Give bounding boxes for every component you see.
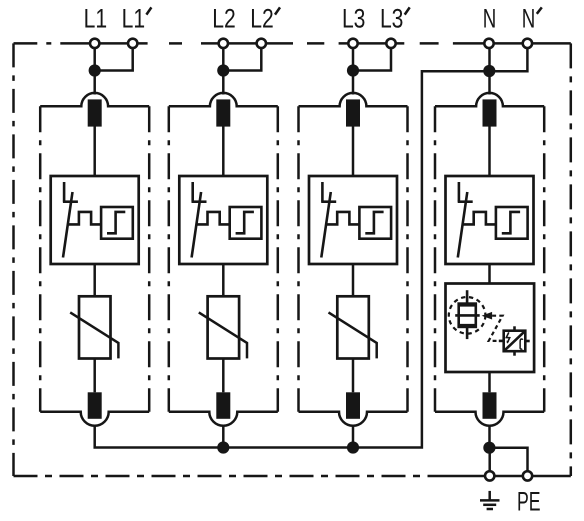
- trigger device left lead: [499, 340, 504, 343]
- wire module L2 bottom to N bus: [222, 425, 225, 447]
- wire contact to disconnector N: [488, 127, 491, 177]
- disconnector switch blade N: [458, 192, 468, 258]
- svg-text:L2: L2: [212, 4, 236, 34]
- wire spark gap box to bottom contact N: [488, 372, 491, 392]
- wire varistor to bottom contact L1: [93, 359, 96, 393]
- surge waveform glyph in trigger box: [520, 339, 523, 349]
- junction dot on N bus below L2: [217, 441, 229, 453]
- wire L2 terminal drop to module plug contact: [222, 48, 225, 95]
- frame left edge (dash-dot): [12, 43, 15, 476]
- protection module L3 enclosure top edge with plug-contact bump: [299, 93, 408, 106]
- ground symbol bar 2: [483, 504, 496, 507]
- terminal L3': [386, 39, 395, 48]
- disconnector switch blade L1: [63, 192, 73, 258]
- status signal step waveform L1: [68, 212, 102, 225]
- terminal earth: [485, 471, 494, 480]
- varistor MOV L2 body: [208, 296, 240, 358]
- disconnector contact tick L1: [63, 200, 78, 203]
- wire contact to disconnector L1: [93, 127, 96, 177]
- trigger device diagonal: [504, 331, 524, 350]
- top plug contact element of module L1: [88, 99, 102, 126]
- indicator step glyph L2: [236, 212, 254, 233]
- gas discharge tube top lead: [466, 290, 469, 304]
- dashed circle around gas discharge tube: [449, 297, 486, 334]
- indicator step glyph L1: [107, 212, 125, 233]
- varistor MOV L3 body: [337, 296, 369, 358]
- bottom plug contact element of module L3: [346, 392, 360, 419]
- wire varistor to bottom contact L3: [352, 359, 355, 393]
- protection module L1 enclosure left side (dash-dot): [39, 106, 42, 411]
- thermal disconnector box L3: [309, 176, 397, 264]
- ground symbol bar 3: [487, 508, 493, 511]
- varistor MOV L1 diagonal stroke: [70, 312, 118, 358]
- junction dot node L3: [347, 64, 359, 76]
- device enclosure frame top line through L1 pair: [64, 42, 148, 45]
- disconnector switch lead L2: [191, 182, 194, 202]
- thermal disconnector box L1: [51, 176, 139, 264]
- trigger device top lead: [513, 326, 516, 330]
- indicator step glyph N: [502, 212, 520, 233]
- indicator window box L2: [230, 207, 262, 239]
- protection module L2 enclosure bottom edge with plug-contact bump: [169, 412, 278, 426]
- protection module L1 enclosure top edge with plug-contact bump: [40, 93, 149, 106]
- protection module L1 enclosure right side (dash-dot): [148, 106, 151, 411]
- junction dot node N: [483, 65, 495, 77]
- status signal step waveform N: [462, 212, 496, 225]
- junction dot node L1: [89, 64, 101, 76]
- top plug contact element of N-PE module: [483, 99, 497, 126]
- terminal N: [484, 39, 493, 48]
- wire L3' terminal drop and link to L3 junction: [353, 48, 391, 71]
- thermal disconnector box N: [446, 176, 534, 264]
- terminal L3: [348, 39, 357, 48]
- wire contact to disconnector L2: [222, 127, 225, 177]
- wire varistor to bottom contact L2: [222, 359, 225, 393]
- junction dot node L2: [217, 64, 229, 76]
- gas discharge tube envelope: [459, 304, 476, 327]
- bottom plug contact element of N-PE module: [483, 392, 497, 419]
- junction dot PE node: [483, 442, 495, 454]
- status signal step waveform L3: [326, 212, 360, 225]
- thermal disconnector box L2: [179, 176, 267, 264]
- frame bottom edge dash-dot part: [14, 475, 445, 478]
- disconnector switch blade L2: [192, 192, 202, 258]
- trigger device right lead: [525, 340, 529, 343]
- wire disconnector to spark gap box N: [488, 264, 491, 284]
- indicator window box N: [496, 207, 528, 239]
- gas discharge tube top electrode bar: [458, 304, 477, 307]
- N bus: L1 module bottom along bottom, up bypass riser, to N junction: [95, 71, 490, 447]
- terminal L1: [90, 39, 99, 48]
- frame top line through L2 pair: [201, 42, 293, 45]
- wire N-PE module bottom to PE junction: [488, 425, 491, 448]
- indicator window box L1: [101, 207, 133, 239]
- disconnector switch blade L3: [321, 192, 331, 258]
- frame top line through L3 pair: [339, 42, 405, 45]
- svg-text:L1: L1: [122, 4, 146, 34]
- disconnector switch lead N: [458, 182, 461, 202]
- disconnector contact tick L3: [321, 200, 336, 203]
- protection module L3 enclosure right side (dash-dot): [406, 106, 409, 411]
- disconnector contact tick L2: [192, 200, 207, 203]
- wire L1' terminal drop and link to L1 junction: [95, 48, 133, 71]
- frame top dash between L2' and L3: [307, 42, 324, 45]
- terminal L2': [257, 39, 266, 48]
- trigger device bottom lead: [513, 351, 516, 356]
- wire N' terminal drop and link to N junction: [490, 48, 528, 72]
- gas discharge tube bottom lead: [466, 327, 469, 340]
- terminal L2: [219, 39, 228, 48]
- spark gap unit box N-PE: [446, 284, 535, 373]
- wire L3 terminal drop to module plug contact: [352, 48, 355, 95]
- svg-text:L3: L3: [342, 4, 366, 34]
- wire module L3 bottom to N bus: [352, 425, 355, 447]
- device enclosure frame top-left dash-dot segment: [14, 42, 65, 45]
- wire disconnector to varistor L3: [352, 264, 355, 296]
- wire PE junction down to earth terminal: [488, 448, 491, 472]
- top plug contact element of module L3: [346, 99, 360, 126]
- wire N terminal drop to module plug contact: [488, 48, 491, 95]
- bottom plug contact element of module L2: [216, 392, 230, 419]
- gas discharge tube bottom electrode bar: [458, 324, 477, 327]
- wire PE junction to PE' terminal: [490, 448, 528, 472]
- N-PE module enclosure bottom edge with plug-contact bump: [435, 412, 544, 426]
- terminal N': [523, 39, 532, 48]
- gas discharge tube middle electrode bar: [455, 314, 480, 317]
- disconnector switch lead L1: [63, 182, 66, 202]
- svg-text:N: N: [522, 4, 536, 34]
- lightning glyph in trigger box: [506, 332, 509, 342]
- trigger arrow pointing at gas discharge tube: [482, 312, 493, 320]
- protection module L3 enclosure bottom edge with plug-contact bump: [299, 412, 408, 426]
- wire L2' terminal drop and link to L2 junction: [223, 48, 261, 71]
- wire L1 terminal drop to module plug contact: [93, 48, 96, 95]
- top plug contact element of module L2: [216, 99, 230, 126]
- indicator step glyph L3: [365, 212, 383, 233]
- frame top dash between L3' and N: [420, 42, 439, 45]
- varistor MOV L2 diagonal stroke: [199, 312, 247, 358]
- dashed trigger link path: [489, 316, 503, 341]
- svg-text:PE: PE: [517, 487, 541, 516]
- wire contact to disconnector L3: [352, 127, 355, 177]
- protection module L2 enclosure left side (dash-dot): [168, 106, 171, 411]
- ground symbol stem: [488, 491, 491, 501]
- N-PE module enclosure right side (dash-dot): [543, 106, 546, 411]
- frame bottom edge solid part through PE terminals: [444, 475, 571, 478]
- protection module L2 enclosure right side (dash-dot): [277, 106, 280, 411]
- svg-text:L1: L1: [84, 4, 108, 34]
- junction dot on N bus below L3: [347, 441, 359, 453]
- N-PE module enclosure left side (dash-dot): [434, 106, 437, 411]
- disconnector contact tick N: [458, 200, 473, 203]
- protection module L1 enclosure bottom edge with plug-contact bump: [40, 412, 149, 426]
- trigger device box: [504, 331, 526, 352]
- protection module L2 enclosure top edge with plug-contact bump: [169, 93, 278, 106]
- indicator window box L3: [359, 207, 391, 239]
- frame right edge (dash-dot): [570, 43, 573, 476]
- disconnector switch lead L3: [321, 182, 324, 202]
- N-PE module enclosure top edge with plug-contact bump: [435, 93, 544, 106]
- frame top dash between L1' and L2: [169, 42, 182, 45]
- status signal step waveform L2: [196, 212, 230, 225]
- svg-text:L2: L2: [250, 4, 274, 34]
- terminal L1': [128, 39, 137, 48]
- bottom plug contact element of module L1: [88, 392, 102, 419]
- protection module L3 enclosure left side (dash-dot): [297, 106, 300, 411]
- terminal PE: [523, 471, 532, 480]
- wire disconnector to varistor L2: [222, 264, 225, 296]
- varistor MOV L3 diagonal stroke: [329, 312, 377, 358]
- frame top line through N pair to top-right corner: [453, 42, 571, 45]
- varistor MOV L1 body: [79, 296, 111, 358]
- svg-text:N: N: [483, 4, 497, 34]
- svg-text:L3: L3: [380, 4, 404, 34]
- ground symbol bar 1: [480, 499, 500, 502]
- wire disconnector to varistor L1: [93, 264, 96, 296]
